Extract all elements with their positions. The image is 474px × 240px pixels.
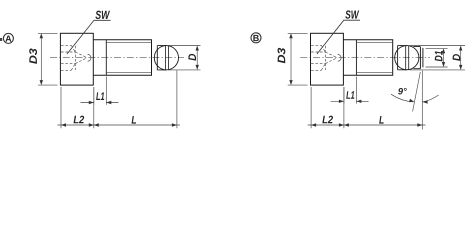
dimension D extension lines A (168, 46, 201, 70)
hex socket hidden lines B (311, 45, 337, 70)
dimension L2 arrows B (311, 123, 344, 126)
label L2 B (322, 116, 333, 124)
pad equator lines B (406, 46, 409, 70)
dimension D arrows A (196, 46, 199, 70)
pad equator lines A (165, 46, 168, 70)
dimension L1 line B (331, 100, 369, 102)
label D3 A (29, 48, 37, 63)
leader SW B (317, 20, 360, 54)
dimension L arrows B (344, 123, 422, 126)
head outline A (60, 33, 93, 85)
edge mark at left border (0, 38, 2, 41)
head outline B (311, 33, 344, 85)
socket point arc A (88, 54, 91, 61)
label L A (132, 116, 137, 124)
balloon B letter (253, 35, 258, 41)
dimension D1 extension lines B (426, 48, 448, 67)
label D A (188, 54, 196, 61)
dimension L1 extension lines A (94, 77, 107, 105)
label L B (379, 116, 384, 124)
thread minor lines A (106, 43, 151, 73)
label 9 degrees B (398, 88, 407, 95)
label D1 B (435, 51, 443, 61)
dimension D3 extension lines B (288, 33, 308, 85)
dimension D line A (196, 48, 198, 68)
thread start line A (105, 40, 107, 75)
pad back line B (397, 46, 399, 70)
angle arc B (391, 94, 439, 102)
thread start line B (355, 40, 357, 75)
angle tilted line B (413, 72, 421, 112)
dimension line L2 and L A (58, 124, 181, 126)
ball A (154, 46, 178, 70)
ball B (395, 46, 419, 70)
angle arrows B (409, 99, 428, 104)
pad top and bottom B (398, 46, 407, 70)
dimension L1 line A (81, 102, 119, 104)
angle vertical line B (421, 71, 423, 130)
pad back line A (156, 46, 158, 70)
thread minor lines B (356, 43, 392, 73)
label L1 A (96, 92, 104, 100)
dimension D extension lines B (410, 46, 466, 70)
hex socket hidden lines A (61, 45, 87, 70)
centerline A (50, 57, 184, 59)
centerline B (300, 57, 430, 59)
dimension D3 line B (290, 36, 292, 83)
flat tip face lines B (420, 47, 423, 69)
dimension L1 extension lines B (344, 77, 357, 104)
shank outline B (343, 40, 392, 75)
dimension D3 extension lines A (38, 33, 58, 85)
extension lines bottom A (61, 71, 177, 129)
dimension D arrows B (459, 46, 462, 70)
pad top and bottom A (157, 46, 166, 70)
dimension D3 arrows A (40, 33, 43, 85)
dimension line L2 and L B (308, 124, 426, 126)
balloon B circle (251, 33, 261, 43)
flat tip connectors B (413, 47, 420, 69)
dimension D3 arrows B (289, 33, 292, 85)
dimension L1 arrows A (89, 101, 112, 104)
extension lines bottom B (311, 87, 344, 128)
dimension D3 line A (40, 36, 42, 83)
label D3 B (278, 48, 286, 63)
socket point arc B (338, 54, 341, 61)
balloon A letter (5, 36, 11, 42)
label D B (453, 54, 461, 61)
dimension L arrows A (94, 123, 177, 126)
balloon A circle (3, 33, 13, 43)
label L2 A (74, 116, 85, 124)
label SW B (345, 10, 359, 18)
shank outline A (93, 40, 151, 75)
dimension L1 arrows B (339, 100, 362, 103)
dimension D1 arrows B (442, 48, 445, 67)
dimension D1 line B (443, 51, 445, 65)
leader SW A (67, 20, 111, 54)
dimension L2 arrows A (61, 123, 94, 126)
label SW A (95, 11, 110, 19)
dimension D line B (460, 48, 462, 68)
label L1 B (346, 91, 354, 99)
